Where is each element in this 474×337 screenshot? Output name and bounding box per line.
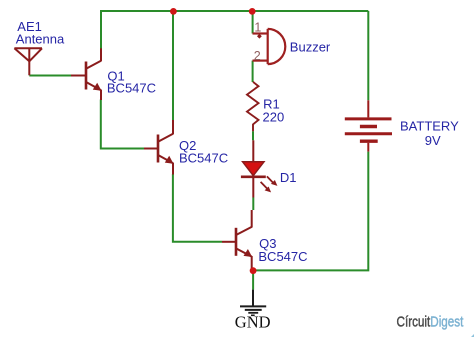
svg-text:BC547C: BC547C [107,81,156,96]
svg-text:BATTERY: BATTERY [400,119,459,134]
svg-text:1: 1 [254,21,261,35]
svg-text:Buzzer: Buzzer [290,39,331,54]
svg-text:BC547C: BC547C [258,249,307,264]
svg-text:CírcuitDigest: CírcuitDigest [397,313,464,330]
svg-text:BC547C: BC547C [179,150,228,165]
svg-text:9V: 9V [425,133,441,148]
svg-text:GND: GND [235,312,271,331]
svg-text:Antenna: Antenna [16,32,65,47]
svg-text:D1: D1 [280,170,297,185]
svg-text:2: 2 [254,49,261,63]
svg-text:220: 220 [263,110,285,125]
